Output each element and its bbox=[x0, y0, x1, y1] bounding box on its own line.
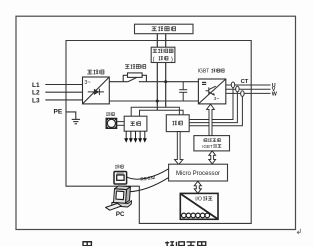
wire output W bbox=[226, 92, 271, 94]
transistor Q1 symbol bbox=[206, 86, 216, 95]
CT2 bbox=[236, 86, 239, 92]
label fan (feng shan) bbox=[106, 112, 110, 115]
inner enclosure frame (stepped) bbox=[66, 41, 251, 224]
caption title bbox=[165, 241, 174, 246]
svg-text:PE: PE bbox=[54, 109, 63, 116]
svg-text:PC: PC bbox=[116, 211, 125, 218]
outer frame bbox=[16, 16, 296, 229]
fan M1 bbox=[106, 118, 116, 128]
I/O control diagonal bbox=[181, 194, 218, 219]
junction dot on DC- bus bbox=[156, 100, 159, 103]
wire output V bbox=[226, 88, 271, 90]
switch blade (precharge bypass) bbox=[128, 76, 139, 82]
label power supply bbox=[130, 122, 135, 126]
junction dot on DC+ bus bbox=[164, 80, 167, 83]
wire CT1 sense bbox=[189, 88, 233, 120]
svg-text:Micro Processor: Micro Processor bbox=[176, 170, 220, 177]
label measuring bbox=[172, 121, 176, 125]
svg-text:(: ( bbox=[153, 57, 155, 63]
equals sign (DC side) bbox=[202, 82, 206, 84]
wire braking resistor to braking unit (left) bbox=[156, 34, 158, 48]
power supply box (dian yuan) bbox=[124, 116, 147, 131]
label braking unit (zhi dong dan yuan) bbox=[153, 49, 158, 53]
wire fan to power supply (upper) bbox=[117, 121, 125, 123]
label rectifier (zheng liu qiao) bbox=[87, 70, 92, 74]
PC icon bbox=[106, 185, 133, 210]
braking unit box (optional) bbox=[151, 47, 175, 62]
arrow measuring to microprocessor bbox=[175, 132, 183, 165]
wire CT2 sense bbox=[189, 92, 237, 123]
ground bbox=[72, 119, 80, 123]
wire DC+ bus left segment bbox=[109, 81, 128, 83]
caption figure number bbox=[83, 242, 91, 246]
wire output U bbox=[226, 84, 271, 86]
arrow gate driver to IGBT inverter bbox=[207, 104, 215, 135]
measuring box (ce liang) bbox=[166, 115, 189, 132]
microprocessor box bbox=[169, 164, 228, 181]
label braking resistor (zhi dong dian zu) small bbox=[125, 65, 130, 69]
svg-text:3~: 3~ bbox=[214, 96, 220, 102]
resistor R1 wiring bbox=[123, 75, 146, 81]
I/O control box bbox=[180, 193, 218, 219]
svg-text:L2: L2 bbox=[32, 90, 40, 97]
wire DC+ bus right segment bbox=[139, 81, 199, 83]
wire braking resistor to braking unit (right) bbox=[165, 34, 167, 48]
CT1 bbox=[231, 82, 234, 88]
wire braking unit to DC- bus and measuring rail bbox=[156, 63, 158, 111]
svg-text:I/O: I/O bbox=[195, 197, 202, 203]
wire L3 to rectifier bbox=[45, 99, 82, 101]
arrow microprocessor to I/O (bidirectional) bbox=[194, 181, 201, 193]
wire PC to microprocessor (RS-232) bbox=[129, 178, 169, 192]
wire fan to power supply (lower) bbox=[117, 124, 125, 126]
rectifier bridge U1 bbox=[83, 77, 110, 104]
wire PE bbox=[66, 112, 76, 119]
resistor R1 bbox=[128, 73, 143, 78]
wire DC- bus bbox=[109, 100, 198, 102]
wire DC+ tap down to rail bbox=[165, 82, 167, 108]
braking resistor box (external) bbox=[135, 24, 194, 34]
wire CT3 sense bbox=[189, 96, 242, 125]
label gate driver (men qu dong qi) bbox=[204, 139, 207, 142]
wire rail DC- to loads bbox=[140, 110, 184, 116]
arrow gate driver to microprocessor (bidirectional) bbox=[209, 151, 216, 164]
svg-text:W: W bbox=[272, 91, 278, 97]
svg-text:IGBT: IGBT bbox=[198, 68, 210, 74]
svg-text:CT: CT bbox=[241, 79, 249, 85]
svg-text:L3: L3 bbox=[32, 97, 40, 104]
diode inside rectifier bbox=[88, 89, 104, 95]
I/O terminal circles bbox=[182, 213, 187, 218]
svg-text:L1: L1 bbox=[32, 82, 40, 89]
svg-text:): ) bbox=[171, 57, 173, 63]
capacitor C1 bbox=[179, 82, 187, 101]
power supply output arrows bbox=[124, 131, 128, 143]
svg-text:IGBT: IGBT bbox=[202, 144, 213, 149]
gate driver / IGBT protection box bbox=[194, 136, 230, 151]
keypad icon bbox=[114, 172, 127, 185]
svg-text:3~: 3~ bbox=[84, 80, 90, 86]
wire L1 to rectifier bbox=[45, 84, 82, 86]
IGBT inverter U2 bbox=[198, 79, 225, 104]
CT3 bbox=[241, 91, 244, 97]
return mark bbox=[297, 229, 300, 234]
wire rail DC+ to loads bbox=[131, 107, 179, 116]
wire L2 to rectifier bbox=[45, 91, 82, 93]
wire braking unit to DC+ bus bbox=[165, 63, 167, 82]
label braking resistor (zhi dong dian zu) top bbox=[152, 27, 157, 31]
wire keypad to microprocessor (serial) bbox=[127, 169, 169, 179]
label keypad (jian pan) bbox=[115, 165, 119, 168]
